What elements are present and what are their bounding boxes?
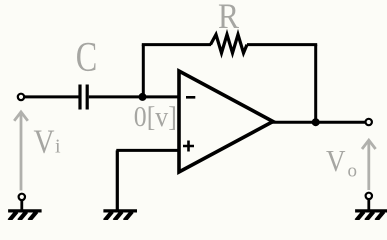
svg-text:o: o	[348, 161, 358, 182]
input lower terminal (open circle)	[19, 194, 25, 200]
svg-text:V: V	[34, 123, 55, 160]
output terminal (open circle)	[366, 119, 372, 125]
ground (right)	[355, 211, 387, 221]
output lower terminal (open circle)	[366, 193, 372, 199]
wire feedback right leg	[314, 45, 317, 123]
node A junction dot (cap / feedback)	[139, 93, 147, 101]
stub lower terminal to ground (left)	[20, 200, 23, 211]
wire feedback top left segment	[142, 43, 211, 46]
svg-text:i: i	[55, 135, 61, 157]
input terminal (open circle)	[18, 94, 24, 100]
wire feedback left leg	[142, 45, 145, 97]
capacitor C1 right plate	[86, 85, 89, 110]
wire feedback top right segment	[247, 43, 317, 46]
wire non-inverting down leg	[116, 150, 119, 211]
capacitor C1 left plate	[78, 85, 81, 110]
ground (left)	[8, 211, 42, 221]
wire output	[271, 121, 366, 124]
stub lower terminal to ground (right)	[367, 199, 370, 211]
Vo arrow (gray)	[362, 140, 376, 190]
svg-text:C: C	[76, 35, 98, 81]
op-amp plus pin mark	[183, 141, 194, 152]
op-amp U1 triangle	[179, 71, 273, 172]
svg-text:0[v]: 0[v]	[134, 102, 177, 133]
node B junction dot (output / feedback)	[312, 118, 320, 126]
Vi arrow (gray)	[14, 112, 28, 191]
ground (middle)	[103, 211, 137, 221]
resistor R zigzag	[211, 35, 248, 54]
wire non-inverting input horizontal	[116, 149, 178, 152]
svg-text:V: V	[326, 143, 346, 178]
wire input to capacitor	[25, 95, 79, 98]
wire capacitor to op-amp inverting input	[89, 95, 178, 98]
op-amp minus pin mark	[186, 96, 195, 99]
svg-text:R: R	[218, 0, 239, 36]
